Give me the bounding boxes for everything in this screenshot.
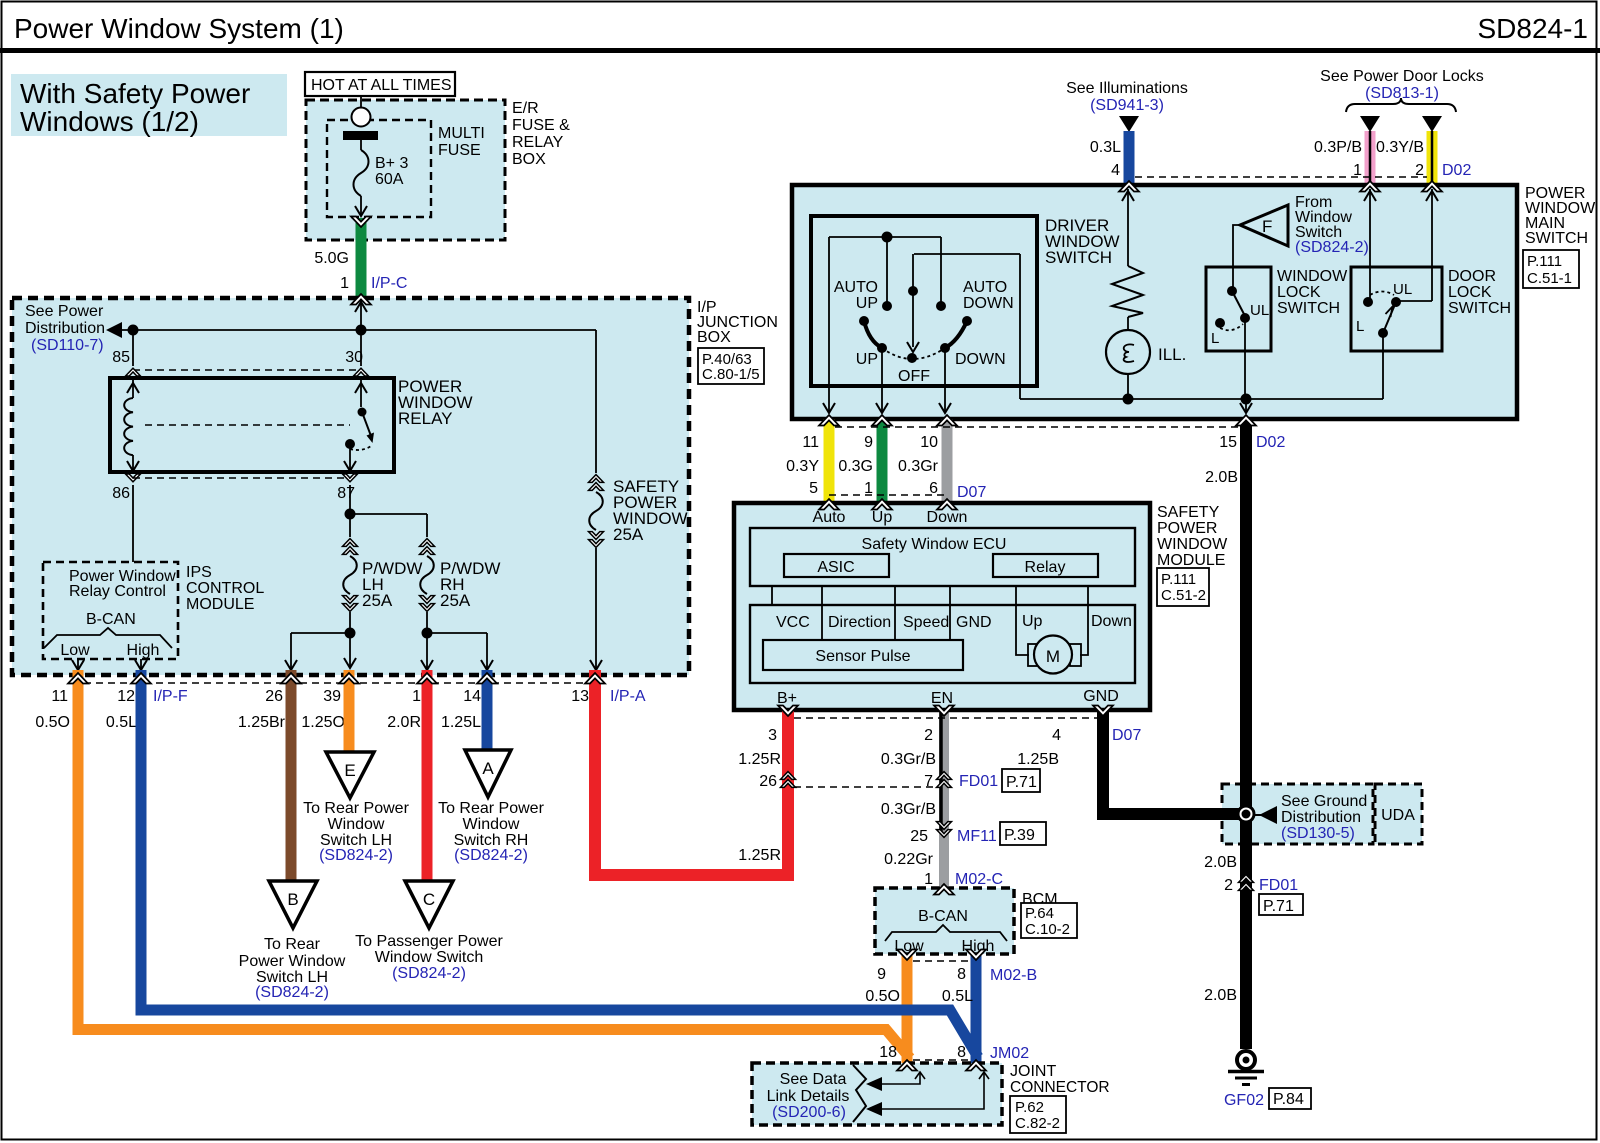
svg-text:P.39: P.39 (1004, 827, 1035, 844)
svg-text:B-CAN: B-CAN (918, 908, 968, 925)
svg-text:0.5O: 0.5O (35, 714, 70, 731)
svg-text:Auto: Auto (813, 509, 846, 526)
svg-text:Window Switch: Window Switch (375, 949, 483, 966)
svg-text:Speed: Speed (903, 614, 949, 631)
svg-text:GF02: GF02 (1224, 1092, 1264, 1109)
svg-text:39: 39 (323, 688, 341, 705)
svg-text:Windows (1/2): Windows (1/2) (20, 106, 199, 137)
svg-text:Sensor Pulse: Sensor Pulse (815, 648, 910, 665)
svg-text:Window: Window (463, 816, 520, 833)
svg-text:ASIC: ASIC (817, 559, 854, 576)
svg-text:LOCK: LOCK (1277, 284, 1321, 301)
svg-text:EN: EN (931, 690, 953, 707)
svg-text:60A: 60A (375, 171, 404, 188)
svg-text:POWER: POWER (1157, 520, 1217, 537)
svg-text:SWITCH: SWITCH (1525, 230, 1588, 247)
svg-text:9: 9 (864, 434, 873, 451)
svg-text:SWITCH: SWITCH (1448, 300, 1511, 317)
svg-text:CONTROL: CONTROL (186, 580, 264, 597)
svg-text:AUTO: AUTO (834, 279, 878, 296)
svg-text:MF11: MF11 (957, 828, 997, 845)
svg-text:See Illuminations: See Illuminations (1066, 80, 1188, 97)
svg-text:To Passenger Power: To Passenger Power (355, 933, 503, 950)
svg-text:4: 4 (1111, 162, 1120, 179)
svg-text:8: 8 (957, 1044, 966, 1061)
svg-text:WINDOW: WINDOW (1157, 536, 1228, 553)
svg-text:P.71: P.71 (1006, 774, 1037, 791)
svg-text:DOWN: DOWN (963, 295, 1014, 312)
svg-text:Up: Up (872, 509, 893, 526)
svg-text:C.82-2: C.82-2 (1015, 1115, 1060, 1132)
svg-text:Up: Up (1022, 613, 1043, 630)
svg-text:0.5L: 0.5L (106, 714, 137, 731)
svg-text:OFF: OFF (898, 368, 930, 385)
svg-text:P.111: P.111 (1161, 571, 1196, 588)
svg-text:AUTO: AUTO (963, 279, 1007, 296)
svg-text:2: 2 (1224, 877, 1233, 894)
svg-text:25A: 25A (440, 591, 471, 610)
svg-text:BOX: BOX (512, 151, 546, 168)
svg-text:0.3G: 0.3G (838, 458, 873, 475)
svg-text:1.25L: 1.25L (441, 714, 481, 731)
svg-text:0.22Gr: 0.22Gr (884, 851, 934, 868)
svg-text:L: L (1211, 330, 1219, 347)
svg-text:FUSE: FUSE (438, 142, 481, 159)
svg-text:RELAY: RELAY (512, 134, 564, 151)
svg-text:B-CAN: B-CAN (86, 611, 136, 628)
svg-text:(SD824-2): (SD824-2) (319, 847, 393, 864)
svg-text:A: A (482, 759, 494, 778)
svg-text:UL: UL (1393, 281, 1412, 298)
svg-text:D07: D07 (957, 484, 986, 501)
svg-text:UL: UL (1250, 302, 1269, 319)
svg-text:JOINT: JOINT (1010, 1063, 1056, 1080)
svg-text:0.3L: 0.3L (1090, 139, 1121, 156)
svg-text:25: 25 (910, 828, 928, 845)
svg-text:(SD824-2): (SD824-2) (392, 965, 466, 982)
svg-text:LOCK: LOCK (1448, 284, 1492, 301)
svg-text:(SD110-7): (SD110-7) (31, 337, 104, 354)
svg-text:M02-B: M02-B (990, 967, 1037, 984)
svg-text:To Rear Power: To Rear Power (303, 800, 409, 817)
svg-text:C.51-1: C.51-1 (1527, 270, 1572, 287)
svg-text:1: 1 (924, 871, 933, 888)
svg-text:(SD200-6): (SD200-6) (772, 1104, 846, 1121)
svg-text:To Rear: To Rear (264, 936, 321, 953)
svg-text:D07: D07 (1112, 727, 1141, 744)
svg-text:M: M (1046, 647, 1060, 666)
svg-text:(SD824-2): (SD824-2) (1295, 239, 1369, 256)
svg-text:0.5L: 0.5L (942, 988, 973, 1005)
svg-text:5: 5 (809, 480, 818, 497)
svg-text:1.25B: 1.25B (1017, 751, 1059, 768)
svg-text:MODULE: MODULE (186, 596, 254, 613)
svg-text:15: 15 (1219, 434, 1237, 451)
svg-text:GND: GND (1083, 688, 1119, 705)
svg-text:I/P-F: I/P-F (153, 688, 188, 705)
svg-text:Window: Window (328, 816, 385, 833)
svg-text:To Rear Power: To Rear Power (438, 800, 544, 817)
svg-text:E/R: E/R (512, 100, 539, 117)
svg-text:0.5O: 0.5O (865, 988, 900, 1005)
svg-text:See Ground: See Ground (1281, 793, 1367, 810)
svg-text:Power Window System (1): Power Window System (1) (14, 13, 344, 44)
svg-text:See Power Door Locks: See Power Door Locks (1320, 68, 1484, 85)
svg-text:2.0B: 2.0B (1204, 987, 1237, 1004)
svg-text:UP: UP (856, 295, 878, 312)
svg-text:FD01: FD01 (959, 773, 998, 790)
svg-text:Distribution: Distribution (1281, 809, 1361, 826)
svg-text:C.10-2: C.10-2 (1025, 921, 1070, 938)
svg-text:Down: Down (927, 509, 968, 526)
svg-text:Distribution: Distribution (25, 320, 105, 337)
svg-text:UDA: UDA (1381, 807, 1415, 824)
svg-text:MODULE: MODULE (1157, 552, 1225, 569)
svg-text:DOOR: DOOR (1448, 268, 1496, 285)
svg-text:P.62: P.62 (1015, 1099, 1044, 1116)
svg-text:0.3Gr: 0.3Gr (898, 458, 939, 475)
svg-text:10: 10 (920, 434, 938, 451)
svg-text:0.3P/B: 0.3P/B (1314, 139, 1362, 156)
svg-text:0.3Gr/B: 0.3Gr/B (881, 801, 936, 818)
svg-text:CONNECTOR: CONNECTOR (1010, 1079, 1110, 1096)
svg-text:SAFETY: SAFETY (1157, 504, 1220, 521)
svg-text:Power Window: Power Window (239, 953, 346, 970)
svg-text:BOX: BOX (697, 329, 731, 346)
svg-text:25A: 25A (613, 525, 644, 544)
svg-text:L: L (1356, 318, 1364, 335)
svg-text:SWITCH: SWITCH (1045, 248, 1112, 267)
svg-text:85: 85 (112, 349, 130, 366)
svg-text:1.25R: 1.25R (738, 751, 781, 768)
svg-text:F: F (1262, 217, 1272, 236)
svg-text:1.25R: 1.25R (738, 847, 781, 864)
svg-text:Relay Control: Relay Control (69, 583, 166, 600)
svg-text:P.71: P.71 (1263, 898, 1294, 915)
svg-text:I/P-A: I/P-A (610, 688, 646, 705)
svg-text:FUSE &: FUSE & (512, 117, 570, 134)
svg-text:(SD824-2): (SD824-2) (255, 984, 329, 1001)
svg-text:26: 26 (265, 688, 283, 705)
svg-text:1: 1 (412, 688, 421, 705)
svg-text:87: 87 (337, 485, 355, 502)
svg-text:D02: D02 (1442, 162, 1471, 179)
svg-text:C.51-2: C.51-2 (1161, 587, 1206, 604)
svg-text:2.0B: 2.0B (1204, 854, 1237, 871)
svg-text:5.0G: 5.0G (314, 250, 349, 267)
svg-text:(SD824-2): (SD824-2) (454, 847, 528, 864)
svg-text:0.3Y: 0.3Y (786, 458, 819, 475)
svg-text:4: 4 (1052, 727, 1061, 744)
svg-text:P.64: P.64 (1025, 905, 1054, 922)
svg-text:9: 9 (877, 966, 886, 983)
svg-text:8: 8 (957, 966, 966, 983)
svg-text:0.3Gr/B: 0.3Gr/B (881, 751, 936, 768)
svg-text:Relay: Relay (1025, 559, 1066, 576)
svg-text:Link Details: Link Details (767, 1088, 850, 1105)
svg-text:MULTI: MULTI (438, 125, 485, 142)
svg-text:M02-C: M02-C (955, 871, 1003, 888)
svg-text:SWITCH: SWITCH (1277, 300, 1340, 317)
svg-text:Low: Low (60, 642, 90, 659)
svg-text:2.0B: 2.0B (1205, 469, 1238, 486)
svg-text:2.0R: 2.0R (387, 714, 421, 731)
svg-text:High: High (127, 642, 160, 659)
svg-text:DOWN: DOWN (955, 351, 1006, 368)
svg-text:C.80-1/5: C.80-1/5 (702, 366, 760, 383)
svg-text:C: C (423, 890, 435, 909)
svg-text:1.25O: 1.25O (301, 714, 345, 731)
svg-text:11: 11 (51, 688, 68, 705)
svg-text:2: 2 (924, 727, 933, 744)
svg-text:FD01: FD01 (1259, 877, 1298, 894)
svg-text:13: 13 (571, 688, 589, 705)
svg-text:JM02: JM02 (990, 1045, 1029, 1062)
svg-text:30: 30 (345, 349, 363, 366)
svg-text:B+: B+ (777, 690, 797, 707)
svg-text:P.84: P.84 (1273, 1091, 1304, 1108)
svg-text:1: 1 (340, 275, 349, 292)
svg-text:IPS: IPS (186, 564, 212, 581)
svg-text:11: 11 (802, 434, 819, 451)
svg-text:(SD130-5): (SD130-5) (1281, 825, 1355, 842)
svg-text:GND: GND (956, 614, 992, 631)
svg-text:B+ 3: B+ 3 (375, 155, 408, 172)
svg-text:HOT AT ALL TIMES: HOT AT ALL TIMES (311, 77, 452, 94)
svg-text:B: B (287, 890, 298, 909)
svg-text:1.25Br: 1.25Br (238, 714, 286, 731)
svg-text:Safety Window ECU: Safety Window ECU (862, 536, 1007, 553)
svg-text:25A: 25A (362, 591, 393, 610)
svg-text:14: 14 (463, 688, 481, 705)
svg-text:UP: UP (856, 351, 878, 368)
svg-text:See Power: See Power (25, 303, 104, 320)
svg-text:12: 12 (117, 688, 135, 705)
svg-text:ILL.: ILL. (1158, 345, 1186, 364)
svg-text:86: 86 (112, 485, 130, 502)
svg-text:See Data: See Data (780, 1071, 847, 1088)
svg-text:0.3Y/B: 0.3Y/B (1376, 139, 1424, 156)
svg-text:VCC: VCC (776, 614, 810, 631)
svg-text:With Safety Power: With Safety Power (20, 78, 250, 109)
svg-text:26: 26 (759, 773, 777, 790)
svg-text:3: 3 (768, 727, 777, 744)
svg-text:I/P-C: I/P-C (371, 275, 407, 292)
svg-text:SD824-1: SD824-1 (1477, 13, 1588, 44)
svg-text:WINDOW: WINDOW (1277, 268, 1348, 285)
svg-text:D02: D02 (1256, 434, 1285, 451)
svg-text:(SD941-3): (SD941-3) (1090, 97, 1164, 114)
svg-text:Down: Down (1091, 613, 1132, 630)
svg-text:RELAY: RELAY (398, 409, 453, 428)
svg-text:Direction: Direction (828, 614, 891, 631)
svg-text:E: E (344, 761, 355, 780)
svg-text:P.111: P.111 (1527, 253, 1562, 270)
svg-text:18: 18 (879, 1044, 897, 1061)
